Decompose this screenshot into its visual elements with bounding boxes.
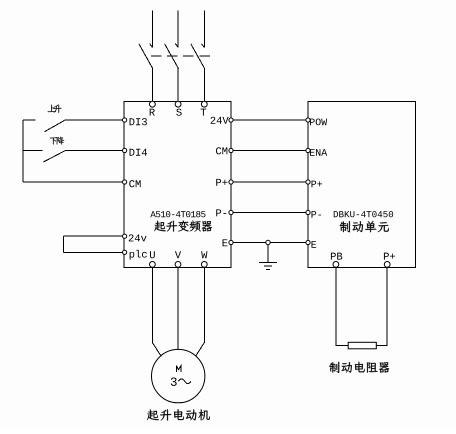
terminal R <box>150 101 156 107</box>
wire P- to P- <box>233 212 306 214</box>
wire P+ down <box>376 267 387 345</box>
label 起升变频器 (hoist inverter) <box>154 221 212 232</box>
wire jumper vertical <box>62 236 64 252</box>
ground bar 3 <box>266 269 270 271</box>
terminal W <box>201 262 207 268</box>
terminal U <box>150 262 156 268</box>
label DBKU-4T0450 <box>334 211 393 217</box>
terminal 24v (left) <box>123 234 127 238</box>
pin label E (brake) <box>311 241 316 248</box>
pin label P- (inverter) <box>216 209 226 216</box>
wire V to motor <box>177 267 179 349</box>
pin label P+ (bottom) <box>384 253 395 260</box>
wire ground stem <box>267 245 269 263</box>
wire bus left vertical <box>22 120 24 182</box>
terminal DI4 (left) <box>123 148 127 152</box>
pin label S <box>176 109 181 116</box>
wire supply phase R upper <box>151 11 153 48</box>
label 起升电动机 (hoist motor) <box>147 409 210 420</box>
wire W to motor <box>196 267 205 356</box>
terminal POW (brake left) <box>306 118 310 122</box>
terminal plc (left) <box>123 250 127 254</box>
wire supply phase S upper <box>177 11 179 48</box>
pin label plc <box>130 250 147 260</box>
wire DI3 switch lead <box>23 119 35 121</box>
pin label E (inverter) <box>223 239 228 246</box>
wire switch SB1 to DI3 <box>65 119 123 121</box>
terminal CM (left) <box>123 180 127 184</box>
terminal 24V (inverter right) <box>229 118 233 122</box>
breaker QF pole T fixed-contact hook <box>202 44 205 48</box>
pin label POW <box>310 119 327 126</box>
pin label P+ (inverter) <box>216 179 227 186</box>
pin label DI3 <box>130 118 147 125</box>
pin label V <box>175 251 181 258</box>
pin label P+ (brake) <box>311 181 322 188</box>
terminal P+ (brake left) <box>306 180 310 184</box>
wire E to E <box>233 242 306 244</box>
wire phase R to terminal <box>151 69 153 102</box>
terminal E (brake left) <box>306 240 310 244</box>
wire switch SB2 to DI4 <box>65 150 123 152</box>
wire phase S to terminal <box>177 69 179 102</box>
wire supply phase T upper <box>203 11 205 48</box>
inverter U1 box <box>124 101 231 267</box>
motor label ~ (phase tilde) <box>178 379 191 384</box>
terminal V <box>175 262 181 268</box>
pin label T <box>201 109 207 116</box>
breaker QF pole R blade <box>139 44 153 69</box>
motor label M <box>176 366 181 373</box>
brake unit U2 box <box>308 101 416 267</box>
label 上升 (raise) <box>48 105 62 113</box>
ground bar 2 <box>264 265 272 267</box>
pin label CM (right) <box>216 147 227 154</box>
node E ground tap <box>266 240 270 244</box>
pin label R <box>150 109 155 116</box>
pin label P- (brake) <box>311 211 321 218</box>
ground bar 1 <box>259 262 277 264</box>
label 下降 (lower) <box>50 137 64 145</box>
pin label CM <box>129 180 140 187</box>
terminal P- (brake left) <box>306 210 310 214</box>
wire bus to CM <box>23 181 123 183</box>
wire jumper 24v <box>63 235 122 237</box>
breaker QF gang linkage (dashed) <box>151 55 211 57</box>
terminal P+ (inverter right) <box>229 180 233 184</box>
breaker QF pole T blade <box>191 44 205 69</box>
breaker QF pole R fixed-contact hook <box>150 44 153 48</box>
terminal T <box>201 101 207 107</box>
wire PB down <box>336 267 348 345</box>
breaker QF pole S fixed-contact hook <box>175 44 178 48</box>
breaker QF pole S blade <box>165 44 179 69</box>
terminal DI3 (left) <box>123 118 127 122</box>
pin label DI4 <box>130 149 148 156</box>
label 制动电阻器 (brake resistor) <box>329 362 389 373</box>
label A510-4T0185 <box>150 211 205 217</box>
pin label 24v <box>129 234 147 241</box>
wire jumper plc <box>63 251 122 253</box>
wire P+ to P+ <box>233 181 306 183</box>
terminal E (inverter right) <box>229 240 233 244</box>
resistor RB (brake resistor) <box>348 342 376 349</box>
wire CM to ENA <box>233 150 306 152</box>
terminal CM (inverter right) <box>229 148 233 152</box>
terminal S <box>175 101 181 107</box>
pin label 24V <box>211 117 229 124</box>
pin label PB <box>331 253 342 260</box>
motor label 3 <box>171 377 177 385</box>
wire phase T to terminal <box>203 69 205 102</box>
terminal ENA (brake left) <box>306 148 310 152</box>
switch SB1 (上升) blade <box>45 120 65 131</box>
pin label U <box>150 251 155 258</box>
terminal P- (inverter right) <box>229 210 233 214</box>
pin label W <box>201 251 207 258</box>
terminal PB <box>333 262 339 268</box>
terminal P+ (brake bottom) <box>384 262 390 268</box>
switch SB2 (下降) blade <box>43 151 65 162</box>
motor M1 circle <box>152 349 205 402</box>
wire 24V to POW <box>233 119 306 121</box>
label 制动单元 (brake unit) <box>340 221 389 232</box>
wire DI4 switch lead <box>23 150 43 152</box>
pin label ENA <box>310 149 327 156</box>
wire U to motor <box>152 267 161 356</box>
